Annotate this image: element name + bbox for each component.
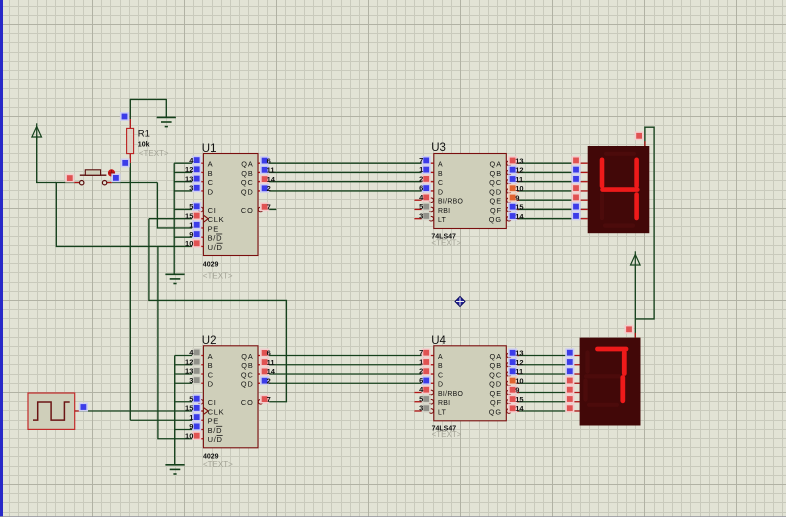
svg-text:A: A [208,352,214,361]
display common pin stubs [644,141,646,146]
counter U2 4029 [203,346,258,448]
svg-text:B: B [438,363,443,370]
svg-text:3: 3 [189,376,193,385]
svg-text:5: 5 [189,394,193,403]
svg-text:4029: 4029 [203,262,219,269]
wire U3 QA to DISP1 segment a [513,162,580,164]
svg-text:15: 15 [185,211,193,220]
wire display common anodes to POWER2 [635,127,654,319]
svg-text:1: 1 [419,357,423,366]
svg-text:6: 6 [419,376,423,385]
svg-text:D: D [438,382,443,389]
wire U1 QA to U3 A [267,162,425,164]
svg-text:<TEXT>: <TEXT> [203,460,233,469]
wire U1 CO stub [268,208,277,210]
svg-text:<TEXT>: <TEXT> [432,430,462,439]
svg-text:U2: U2 [202,335,217,347]
svg-text:3: 3 [419,211,423,220]
svg-text:BI/RBO: BI/RBO [438,199,463,206]
svg-text:RBI: RBI [438,208,450,215]
wire U1 jam input bus [173,163,175,274]
display DISP2 body [580,338,641,426]
svg-text:14: 14 [515,404,524,413]
svg-text:<TEXT>: <TEXT> [139,149,169,158]
wire U4 QD to DISP2 segment d [513,382,572,384]
svg-text:9: 9 [189,230,193,239]
svg-text:C: C [208,370,214,379]
svg-text:13: 13 [185,367,193,376]
resistor R1 [129,119,131,128]
svg-text:CI: CI [208,206,217,215]
svg-text:B/D: B/D [208,234,223,243]
svg-text:PE: PE [208,224,219,233]
svg-text:15: 15 [515,395,523,404]
svg-text:D: D [438,189,443,196]
svg-text:U1: U1 [202,143,217,155]
svg-text:PE: PE [208,417,219,426]
logic state markers [192,156,201,165]
svg-text:QA: QA [490,352,503,361]
origin marker [455,297,465,307]
svg-text:14: 14 [267,175,276,184]
wire U3 QC to DISP1 segment c [513,181,580,183]
wire U4 QG to DISP2 segment g [513,410,572,412]
svg-text:7: 7 [267,203,271,212]
display DISP1 body [588,146,650,233]
wire U2 CO to U1 CLK [149,218,203,220]
ground G1 [157,116,176,118]
svg-text:QF: QF [490,206,502,215]
svg-text:13: 13 [515,156,523,165]
wire U1 QC to U3 C [267,181,425,183]
svg-text:QC: QC [489,370,502,379]
wire U4 QC to DISP2 segment c [513,373,572,375]
svg-text:QB: QB [241,169,254,178]
power rail wire from POWER1 to button [36,136,38,183]
wire U3 QE to DISP1 segment e [513,199,580,201]
push button [74,182,80,184]
svg-text:2: 2 [267,184,271,193]
svg-text:QD: QD [241,187,254,196]
svg-text:QD: QD [489,187,502,196]
ground G2 [165,273,184,275]
svg-text:3: 3 [419,404,423,413]
svg-text:U4: U4 [431,335,446,347]
svg-text:15: 15 [515,203,523,212]
svg-text:10: 10 [515,184,523,193]
wire R1 top to ground G1 [130,99,166,119]
wire R1 bottom to U2 PE [129,163,131,420]
ground G3 [165,464,184,466]
svg-text:6: 6 [267,156,271,165]
svg-text:QB: QB [490,169,503,178]
wire clock to U2 CLK [80,410,203,412]
wire U3 QG to DISP1 segment g [513,218,580,220]
wire U/D net to U2 [158,246,194,438]
svg-text:5: 5 [189,202,193,211]
svg-text:6: 6 [267,349,271,358]
power POWER1 arrow [36,123,38,138]
svg-text:U/D: U/D [208,435,223,444]
svg-text:2: 2 [419,174,423,183]
U3 pin stubs [425,162,434,164]
svg-text:7: 7 [419,156,423,165]
svg-text:RBI: RBI [438,400,450,407]
wire button to U1 PE [107,182,158,184]
svg-text:7: 7 [267,395,271,404]
svg-text:3: 3 [189,184,193,193]
svg-text:10: 10 [515,376,523,385]
svg-text:U3: U3 [431,142,446,154]
display DISP1 lit segments f b g c (digit 4) [602,160,637,218]
svg-text:13: 13 [515,349,523,358]
svg-text:QE: QE [490,197,503,206]
svg-text:11: 11 [267,166,275,175]
svg-text:9: 9 [515,386,519,395]
svg-text:5: 5 [419,394,423,403]
svg-text:9: 9 [189,422,193,431]
U1 pin stubs [194,162,203,164]
svg-text:9: 9 [515,193,519,202]
svg-text:B: B [208,169,214,178]
svg-text:12: 12 [515,358,523,367]
svg-text:7: 7 [419,348,423,357]
svg-text:<TEXT>: <TEXT> [431,239,461,248]
svg-text:D: D [208,380,214,389]
svg-text:CLK: CLK [208,407,225,416]
display DISP1 unlit segments a d e [602,154,634,226]
svg-text:QA: QA [241,352,254,361]
decoder U4 74LS47 [434,346,507,421]
svg-text:CLK: CLK [208,215,225,224]
svg-text:1: 1 [189,221,193,230]
svg-text:U/D: U/D [208,243,223,252]
svg-text:LT: LT [438,217,447,224]
clock generator [28,393,75,429]
svg-text:15: 15 [185,404,193,413]
wire U4 QE to DISP2 segment e [513,392,572,394]
svg-text:6: 6 [419,184,423,193]
wire U4 QA to DISP2 segment a [513,355,572,357]
svg-text:B/D: B/D [208,426,223,435]
wire U4 QF to DISP2 segment f [513,401,572,403]
svg-text:BI/RBO: BI/RBO [438,391,463,398]
svg-text:1: 1 [419,165,423,174]
wire U2 QB to U4 B [267,364,425,366]
svg-text:10: 10 [185,431,193,440]
svg-text:QD: QD [241,380,254,389]
svg-text:CO: CO [241,398,254,407]
svg-text:1: 1 [189,413,193,422]
svg-text:QE: QE [490,389,503,398]
svg-text:11: 11 [515,175,523,184]
svg-text:C: C [208,178,214,187]
svg-text:B: B [438,171,443,178]
svg-text:QG: QG [489,407,502,416]
wire U2 QD to U4 D [267,382,425,384]
svg-text:13: 13 [185,174,193,183]
svg-text:QB: QB [241,361,254,370]
svg-text:A: A [438,354,443,361]
wire U/D net to U1 [56,183,194,247]
display DISP2 lit segments a b c (digit 7) [598,349,627,401]
svg-text:QF: QF [490,398,502,407]
wire U3 QB to DISP1 segment b [513,171,580,173]
svg-text:14: 14 [515,212,524,221]
svg-text:12: 12 [185,357,193,366]
svg-text:R1: R1 [138,129,150,140]
svg-text:12: 12 [185,165,193,174]
svg-text:C: C [438,372,443,379]
svg-text:LT: LT [438,409,447,416]
wire U2 QC to U4 C [267,373,425,375]
svg-text:A: A [438,162,443,169]
decoder U3 74LS47 [434,154,507,229]
svg-text:14: 14 [267,367,276,376]
svg-text:10: 10 [185,239,193,248]
svg-text:2: 2 [267,376,271,385]
svg-text:2: 2 [419,367,423,376]
svg-text:QA: QA [241,160,254,169]
svg-text:QC: QC [241,178,254,187]
U2 pin stubs [194,355,203,357]
svg-text:B: B [208,361,214,370]
svg-text:QA: QA [490,160,503,169]
display DISP2 unlit segments f g e d [586,353,621,405]
svg-text:10k: 10k [138,142,150,149]
svg-text:12: 12 [515,166,523,175]
svg-text:5: 5 [419,202,423,211]
svg-text:QC: QC [241,370,254,379]
svg-text:<TEXT>: <TEXT> [203,271,233,280]
svg-text:C: C [438,180,443,187]
wire U1 QB to U3 B [267,171,425,173]
svg-text:A: A [208,160,214,169]
power POWER2 arrow [634,251,636,266]
wire U2 jam input bus [174,356,176,465]
svg-text:D: D [208,187,214,196]
svg-text:QB: QB [490,361,503,370]
wire U1 QD to U3 D [267,190,425,192]
svg-text:QG: QG [489,215,502,224]
counter U1 4029 [203,154,258,256]
U4 pin stubs [425,355,434,357]
svg-text:11: 11 [267,358,275,367]
wire U2 QA to U4 A [267,355,425,357]
svg-text:CI: CI [208,398,217,407]
wire U4 QB to DISP2 segment b [513,364,572,366]
wire U3 QF to DISP1 segment f [513,208,580,210]
svg-text:CO: CO [241,206,254,215]
svg-text:QD: QD [489,380,502,389]
svg-text:11: 11 [515,367,523,376]
svg-text:QC: QC [489,178,502,187]
wire U3 QD to DISP1 segment d [513,190,580,192]
